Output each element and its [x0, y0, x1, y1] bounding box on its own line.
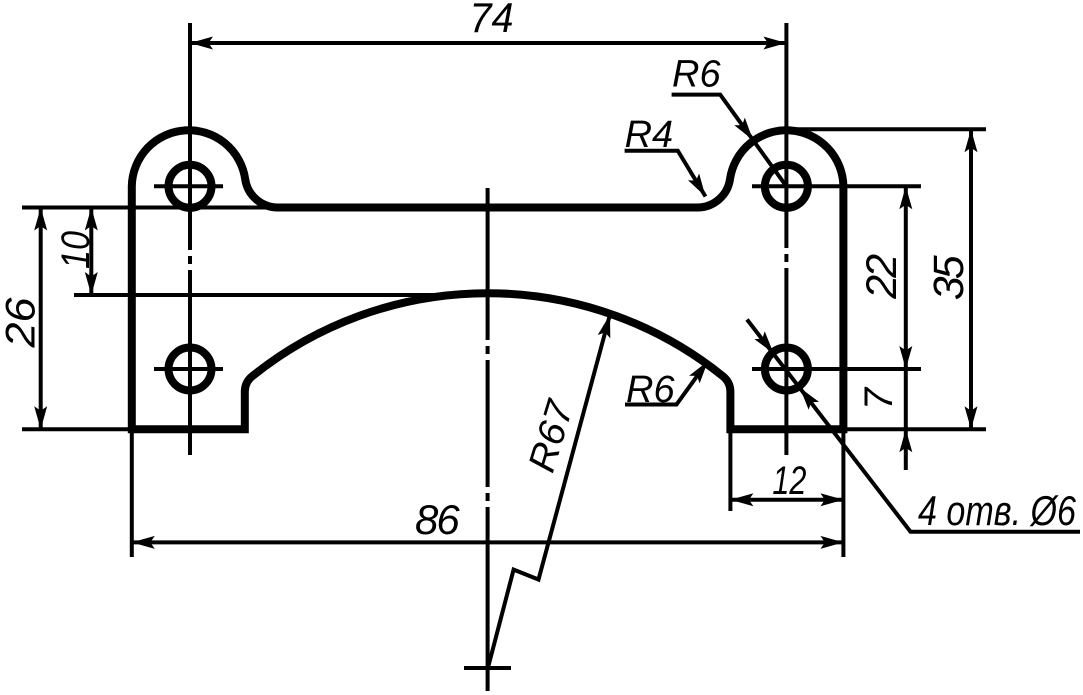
svg-text:12: 12 — [772, 459, 806, 503]
arrow 74 left — [190, 37, 213, 50]
arrow 10 bottom — [85, 272, 98, 295]
extension line 12 left — [728, 433, 732, 511]
svg-text:22: 22 — [858, 254, 906, 300]
dimension line 74 — [190, 41, 786, 45]
arrow 35 bottom — [965, 406, 978, 429]
arrow 7 bottom outside — [899, 429, 912, 452]
extension line 35 bottom right — [847, 427, 986, 431]
extension line 86 left — [130, 433, 134, 557]
dimension line 22 and 7 — [904, 186, 908, 470]
extension line through right lower hole — [752, 367, 921, 371]
svg-text:35: 35 — [925, 254, 973, 300]
centerline right vertical (dash-dot) — [784, 23, 788, 455]
arrow 12 right — [820, 493, 843, 506]
crosshair hole upper-left — [154, 184, 223, 188]
dimension line 10 — [89, 208, 93, 296]
leader R6 bottom — [625, 361, 708, 405]
extension line web top left — [22, 206, 290, 210]
extension line through right upper hole — [752, 184, 921, 188]
arrow dia6 lower-right — [795, 384, 819, 410]
arrow 10 top — [85, 208, 98, 231]
svg-text:86: 86 — [415, 496, 460, 543]
svg-text:R67: R67 — [521, 394, 583, 477]
svg-text:R6: R6 — [672, 54, 721, 96]
svg-text:7: 7 — [857, 386, 901, 410]
svg-text:4 отв. Ø6: 4 отв. Ø6 — [918, 487, 1077, 534]
part outline (bracket plate) — [132, 130, 844, 429]
leader R67 zigzag — [488, 315, 610, 669]
leader 4 holes dia 6 — [747, 320, 1080, 532]
svg-text:10: 10 — [54, 231, 98, 269]
svg-text:R4: R4 — [625, 114, 674, 156]
arrow 86 left — [132, 536, 155, 549]
dimension line 12 — [730, 498, 843, 502]
dimension line 86 — [132, 540, 844, 544]
svg-text:R6: R6 — [626, 369, 675, 411]
centerline middle vertical (dash-dot) — [486, 188, 490, 691]
arrow 35 top — [965, 129, 978, 152]
extension line arc top — [74, 293, 470, 297]
centerline left vertical (dash-dot) — [188, 23, 192, 455]
dimension line 35 — [969, 129, 973, 429]
extension line bottom edge left — [22, 427, 132, 431]
extension line 86/12 right — [841, 433, 845, 557]
arrow 26 bottom — [34, 406, 47, 429]
arrow 22 bottom — [899, 346, 912, 369]
svg-text:74: 74 — [470, 0, 514, 41]
arrow leader R4 — [688, 173, 711, 199]
crosshair hole lower-left — [154, 367, 223, 371]
svg-text:26: 26 — [0, 297, 43, 349]
hole upper-right — [765, 165, 808, 208]
leader R6 top — [672, 95, 787, 187]
arrow 22 top — [899, 186, 912, 209]
center cross tick of R67 arc — [464, 666, 511, 670]
arrow 12 left — [730, 493, 753, 506]
arrow dia6 upper-left — [754, 331, 778, 357]
arrow 26 top — [34, 208, 47, 231]
arrow 86 right — [820, 536, 843, 549]
hole upper-left — [169, 165, 212, 208]
hole lower-left — [169, 348, 212, 391]
arrow leader R6 bottom — [689, 357, 713, 383]
arrow 74 right — [763, 37, 786, 50]
arrow leader R6 top — [734, 118, 758, 144]
hole lower-right — [765, 348, 808, 391]
dimension line 26 — [39, 208, 43, 430]
leader R4 — [625, 151, 706, 197]
extension line 35 top — [788, 127, 986, 131]
arrow leader R67 — [598, 313, 617, 339]
